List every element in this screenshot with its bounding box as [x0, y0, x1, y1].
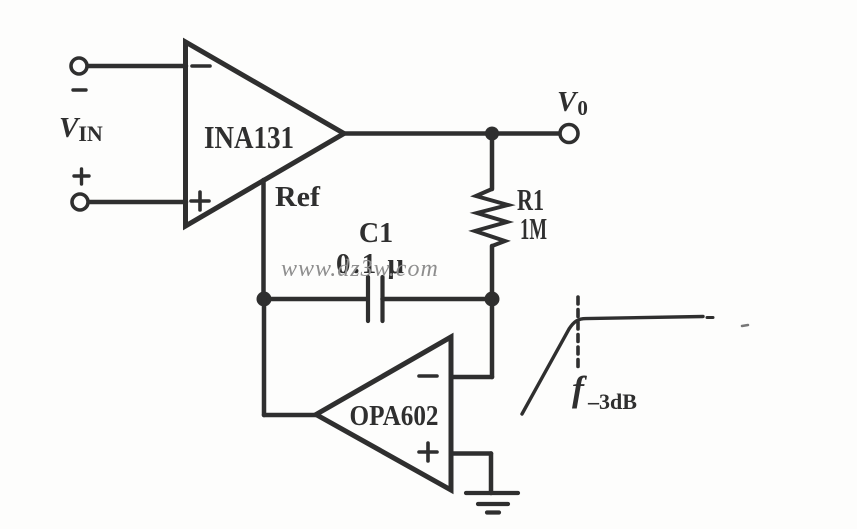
wire: OPA602 inverting input horizontal — [451, 375, 492, 380]
wire: Ref pin of INA131 — [261, 180, 266, 299]
wire: left segment of feedback line — [264, 297, 368, 302]
terminal: inverting input — [71, 58, 87, 74]
dashed line at f-3dB — [576, 297, 580, 372]
svg-text:1M: 1M — [520, 211, 547, 246]
svg-text:INA131: INA131 — [204, 119, 294, 155]
wire: OPA602 output to left — [264, 413, 318, 418]
wire: OPA602 inverting input up to junction — [490, 299, 495, 377]
ground — [466, 493, 518, 513]
resistor R1 — [475, 189, 508, 246]
op-amp INA131 — [186, 42, 345, 226]
capacitor C1 — [368, 277, 383, 321]
svg-text:www.dz3w.com: www.dz3w.com — [281, 256, 439, 282]
stray mark — [742, 325, 748, 326]
node: output junction — [485, 127, 499, 141]
svg-text:V0: V0 — [557, 86, 588, 120]
svg-text:–3dB: –3dB — [587, 389, 637, 414]
svg-text:f: f — [572, 369, 587, 409]
wire: non-inverting input to INA131 — [89, 200, 186, 205]
node: left feedback junction — [257, 292, 272, 307]
svg-text:VIN: VIN — [59, 112, 103, 146]
pin label: plus inside OPA602 — [419, 443, 437, 461]
wire: junction to resistor R1 — [490, 134, 495, 190]
wire: OPA602 non-inverting input down to ground — [489, 454, 494, 494]
frequency response curve — [522, 317, 703, 415]
terminal: V0 output — [560, 125, 578, 143]
svg-text:Ref: Ref — [275, 181, 320, 213]
wire: OPA602 non-inverting input horizontal — [451, 451, 491, 456]
label f-3dB — [572, 369, 637, 414]
wire: inverting input to INA131 — [88, 64, 186, 69]
wire: INA131 output — [344, 131, 560, 136]
wire: left junction down — [262, 299, 267, 415]
svg-text:OPA602: OPA602 — [350, 401, 439, 432]
label: minus sign at input — [73, 88, 86, 91]
label: plus sign at input — [74, 169, 89, 184]
terminal: non-inverting input — [72, 194, 88, 210]
wire: resistor R1 to lower node — [490, 246, 495, 299]
svg-text:C1: C1 — [359, 218, 393, 249]
pin label: plus inside INA131 — [191, 192, 209, 210]
op-amp OPA602 — [316, 337, 451, 490]
node: right feedback junction — [485, 292, 500, 307]
pin label: minus inside INA131 — [192, 64, 210, 68]
wire: right segment of feedback line — [383, 297, 493, 302]
pin label: minus inside OPA602 — [419, 374, 437, 378]
frequency response curve end dash — [707, 316, 713, 319]
